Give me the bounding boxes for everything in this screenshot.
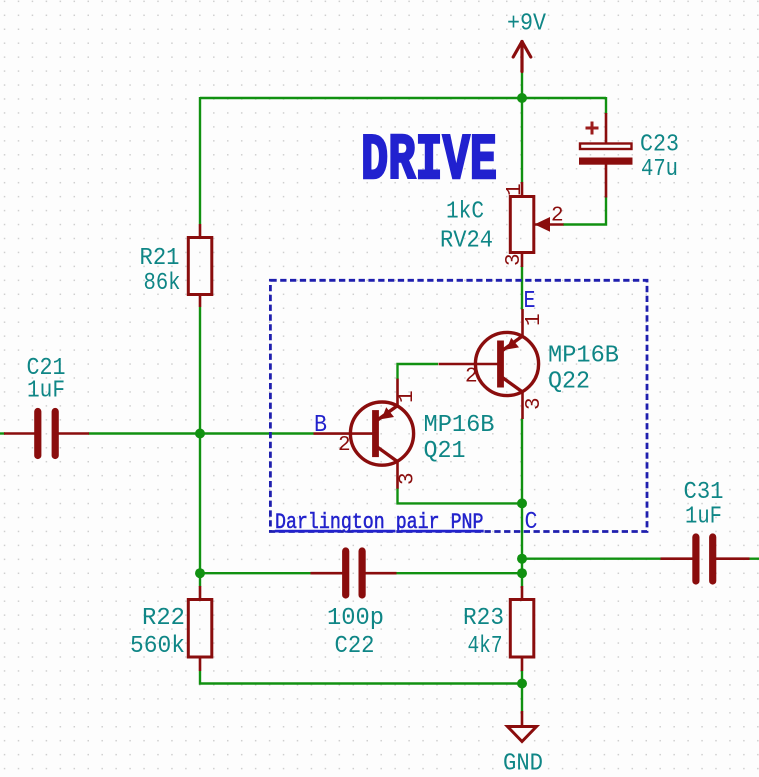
pin C23 top [605,113,608,144]
svg-text:1: 1 [396,390,419,403]
svg-text:MP16B: MP16B [548,343,619,370]
pin C22 right [362,572,397,575]
svg-text:Darlington pair PNP: Darlington pair PNP [275,510,484,535]
junction C22 left [195,568,205,578]
pin C22 left [311,572,346,575]
svg-text:C31: C31 [684,479,724,506]
wire left rail lower [199,307,201,587]
pin C21 right [55,432,89,435]
capacitor C31 [696,537,713,581]
pin C31 right [713,557,750,560]
svg-text:1uF: 1uF [27,378,65,405]
svg-text:1kC: 1kC [446,199,484,226]
pin RV24 pin2 [534,223,564,226]
svg-text:R21: R21 [140,245,180,272]
pin RV24 pin1 [521,182,524,197]
svg-text:3: 3 [397,472,420,485]
svg-text:E: E [524,288,536,315]
svg-text:C22: C22 [335,633,375,660]
svg-text:1: 1 [504,183,527,196]
wire Q21 emitter to Q22 base [398,364,439,379]
pin R21 top [199,224,202,238]
wire R22 bottom loop [200,671,522,684]
svg-text:2: 2 [551,204,564,227]
resistor R23 [510,600,534,658]
wire top horizontal rail [200,97,606,99]
transistor Q21 [314,379,414,489]
svg-text:Q22: Q22 [548,369,590,396]
pin RV24 pin3 [521,253,524,268]
junction +9V rail [517,93,527,103]
pin R21 bottom [199,294,202,307]
wire R23 bottom to GND [521,671,523,712]
junction bottom rail [517,679,527,689]
capacitor C23 polarized [579,122,633,165]
wire left rail upper [199,97,201,224]
junction node B [195,429,205,439]
svg-text:2: 2 [338,434,351,457]
wire C23 bottom to wiper [563,197,606,225]
wire C22 right [396,572,522,574]
power symbol +9V arrow [513,42,531,72]
svg-text:RV24: RV24 [440,228,493,255]
pin C21 left [4,432,38,435]
pin R22 top [199,586,202,600]
capacitor C22 [346,551,362,595]
svg-text:47u: 47u [641,156,678,183]
svg-text:DRIVE: DRIVE [361,125,497,198]
svg-text:100p: 100p [327,605,384,632]
svg-text:3: 3 [523,397,546,410]
svg-text:C: C [525,509,538,536]
wire node C to C31 [522,558,661,560]
wire Q21 collector to node C [398,488,523,503]
svg-text:4k7: 4k7 [468,633,503,660]
capacitor C21 [38,412,55,456]
svg-text:3: 3 [503,253,526,266]
resistor R21 [188,238,212,295]
svg-text:2: 2 [465,366,478,389]
svg-text:1uF: 1uF [685,504,722,531]
resistor R22 [188,600,212,658]
junction C22 right [517,568,527,578]
transistor Q22 [439,309,539,419]
svg-text:C23: C23 [640,132,679,159]
junction C31 tap [517,554,527,564]
potentiometer RV24 body [510,197,534,253]
wire RV24 pin3 to Q22 emitter [521,267,523,310]
svg-text:R23: R23 [463,605,504,632]
pin GND stub [521,711,524,727]
pin R23 top [521,586,524,600]
svg-text:R22: R22 [142,605,185,632]
svg-text:MP16B: MP16B [424,412,495,439]
svg-text:B: B [314,412,327,439]
pin R22 bottom [199,657,202,671]
svg-text:1: 1 [523,313,546,326]
wire node B input [0,432,5,434]
wire C23 top drop [605,97,607,114]
potentiometer RV24 wiper arrow [535,217,551,232]
wire +9V stem to RV24 pin1 [521,71,523,183]
wire Q22 collector down to R23 [521,419,523,587]
pin C23 bottom [605,165,608,198]
pin C31 left [661,557,697,560]
svg-text:+9V: +9V [507,11,547,38]
pin R23 bottom [521,657,524,671]
svg-text:86k: 86k [144,270,181,297]
wire C22 left [200,572,312,574]
svg-text:GND: GND [503,751,543,777]
wire C31 output [749,558,759,560]
svg-text:Q21: Q21 [424,438,466,465]
dashed box Darlington pair [270,280,647,531]
ground [508,727,537,742]
junction node C [517,498,527,508]
svg-text:560k: 560k [130,633,185,660]
